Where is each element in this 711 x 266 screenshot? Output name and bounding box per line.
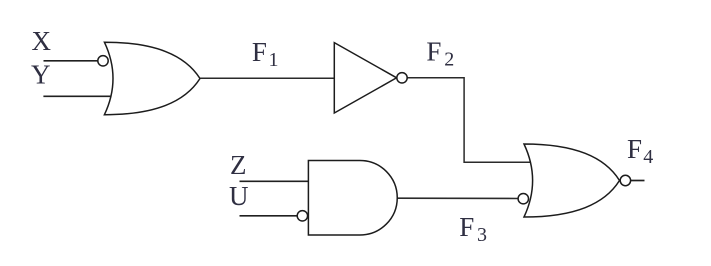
- svg-text:F: F: [627, 134, 642, 164]
- svg-text:F: F: [459, 212, 474, 242]
- wire F4 output stub: [631, 180, 645, 182]
- bubble U3 U input: [297, 211, 307, 221]
- wire Z input: [240, 180, 310, 182]
- wire X input: [44, 60, 99, 62]
- wire F3: [397, 197, 519, 199]
- svg-text:2: 2: [444, 49, 454, 71]
- svg-text:3: 3: [477, 224, 487, 246]
- bubble U2 output: [397, 73, 407, 83]
- and-gate U3 (Z,U inputs): [308, 161, 397, 236]
- bubble U4 output: [620, 175, 630, 185]
- or-gate U1 (X,Y inputs): [104, 42, 200, 115]
- svg-text:Y: Y: [31, 60, 51, 90]
- svg-text:U: U: [229, 181, 249, 211]
- inverter U2: [334, 43, 396, 113]
- svg-text:X: X: [32, 26, 52, 56]
- or-gate U4 (F2,F3 inputs): [524, 144, 620, 217]
- wire F2: [407, 78, 532, 163]
- wire U input: [240, 215, 298, 217]
- svg-text:Z: Z: [230, 150, 247, 180]
- svg-text:1: 1: [269, 49, 279, 71]
- svg-text:F: F: [426, 37, 441, 67]
- wire F1: [199, 77, 335, 79]
- bubble U4 F3 input: [518, 194, 528, 204]
- bubble U1 X input: [98, 56, 108, 66]
- svg-text:4: 4: [643, 146, 653, 168]
- svg-text:F: F: [252, 37, 267, 67]
- wire Y input: [43, 95, 113, 97]
